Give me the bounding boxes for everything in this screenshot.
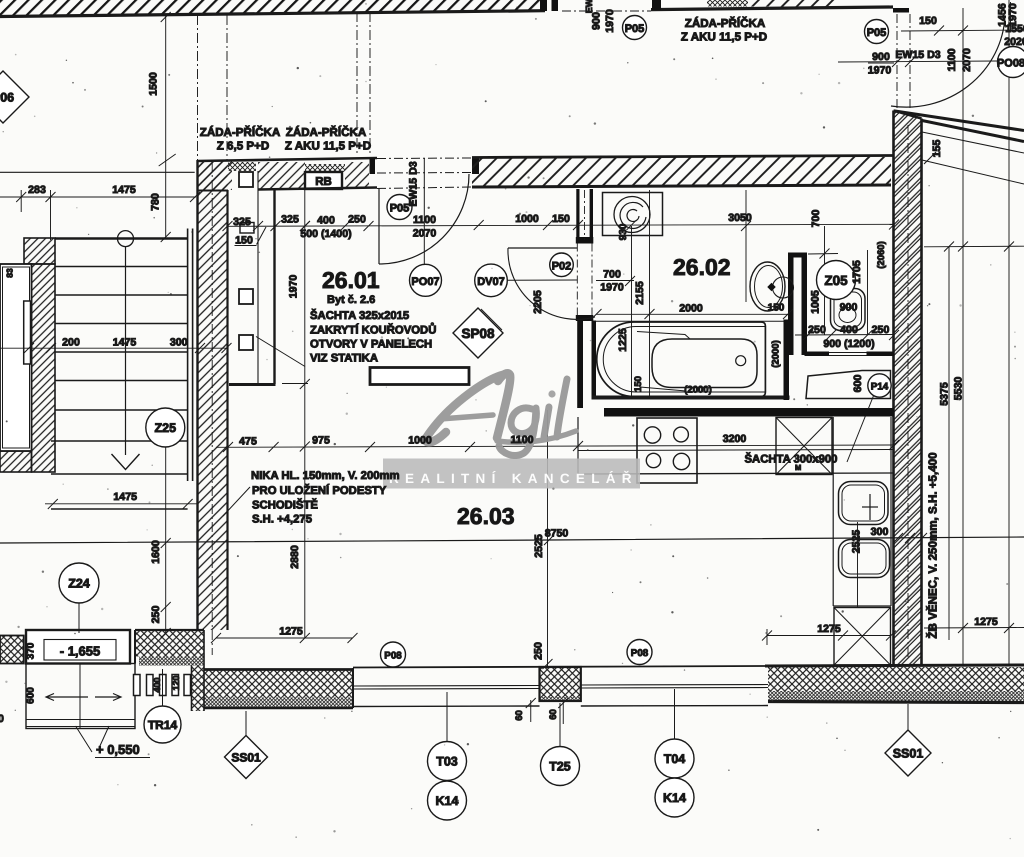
top right neighbour door arc <box>891 17 1005 108</box>
svg-text:T03: T03 <box>436 755 458 769</box>
svg-text:8750: 8750 <box>545 528 569 540</box>
window pillar <box>540 667 581 696</box>
door P05 opening dash-dots <box>377 157 472 160</box>
2155 vertical <box>649 190 651 397</box>
kitchen 1275b dim <box>767 635 891 637</box>
svg-text:200: 200 <box>62 337 80 349</box>
svg-text:EW15 D3: EW15 D3 <box>408 161 420 206</box>
sink bowl 1 <box>839 482 889 525</box>
elevator cabin <box>0 264 32 451</box>
60/60 dims below window <box>530 700 532 722</box>
black stub top right wall <box>893 8 909 13</box>
P02 circle <box>550 253 574 277</box>
Z24 circle <box>59 563 99 603</box>
door P02/DV07 opening dash-dots in partition <box>576 244 578 316</box>
svg-text:2070: 2070 <box>961 48 973 72</box>
svg-text:Byt č. 2.6: Byt č. 2.6 <box>327 294 375 306</box>
top band bottom edge <box>0 11 545 17</box>
washing machine <box>603 193 663 236</box>
svg-text:2205: 2205 <box>532 290 544 314</box>
toilet <box>831 289 866 331</box>
window band east <box>581 684 768 687</box>
entry arrows <box>47 696 88 698</box>
xx block left of -1,655 <box>0 636 24 664</box>
svg-text:OTVORY V PANELECH: OTVORY V PANELECH <box>310 339 432 351</box>
svg-text:250: 250 <box>533 642 545 660</box>
svg-text:60: 60 <box>548 709 559 720</box>
svg-text:150: 150 <box>919 15 937 27</box>
svg-text:150: 150 <box>633 376 644 392</box>
svg-text:250: 250 <box>150 606 162 624</box>
svg-text:700: 700 <box>810 210 822 228</box>
svg-text:155: 155 <box>931 140 943 158</box>
dim line y=446.5 room widths <box>216 445 894 447</box>
svg-text:1005: 1005 <box>810 290 822 314</box>
svg-text:P05: P05 <box>390 203 410 215</box>
svg-text:1475: 1475 <box>112 184 136 196</box>
svg-text:Z AKU 11,5 P+D: Z AKU 11,5 P+D <box>285 140 371 153</box>
svg-text:RB: RB <box>315 176 332 188</box>
top right door dims <box>838 61 997 62</box>
svg-text:ZAKRYTÍ KOUŘOVODŮ: ZAKRYTÍ KOUŘOVODŮ <box>310 323 436 337</box>
top-right slanted building lines <box>895 111 1024 131</box>
bathtub basin <box>652 339 757 388</box>
svg-text:1225: 1225 <box>617 328 629 352</box>
svg-text:5530: 5530 <box>953 377 965 401</box>
top right door dash-dots <box>896 14 898 108</box>
700/1970 bath door dim <box>596 280 634 282</box>
svg-text:475: 475 <box>239 436 257 448</box>
svg-text:PO07: PO07 <box>411 276 439 288</box>
svg-text:EW: EW <box>584 0 594 13</box>
P05 circle right <box>865 20 889 44</box>
svg-text:Z AKU 11,5 P+D: Z AKU 11,5 P+D <box>681 31 767 44</box>
svg-text:PRO ULOŽENÍ PODESTY: PRO ULOŽENÍ PODESTY <box>252 483 387 497</box>
svg-text:900: 900 <box>872 51 890 63</box>
stair handrail <box>187 229 189 482</box>
corridor line <box>0 171 195 173</box>
svg-text:150: 150 <box>768 303 785 314</box>
svg-text:REALITNÍ KANCELÁŘ: REALITNÍ KANCELÁŘ <box>389 470 638 486</box>
svg-text:PO08: PO08 <box>997 58 1024 70</box>
door P05 jamb <box>370 158 376 174</box>
SP08 diamond <box>453 308 503 358</box>
shaft square 3 <box>239 335 253 350</box>
svg-text:1100: 1100 <box>413 214 436 226</box>
svg-text:VIZ STATIKA: VIZ STATIKA <box>310 353 378 365</box>
sink cabinet X box <box>834 608 891 666</box>
stair steps <box>55 237 188 240</box>
partition lower bar <box>577 321 583 408</box>
P06 diamond <box>0 71 29 123</box>
svg-text:300: 300 <box>170 337 188 349</box>
svg-text:975: 975 <box>312 435 330 447</box>
svg-text:+ 0,550: + 0,550 <box>96 742 140 757</box>
svg-text:P05: P05 <box>867 27 887 39</box>
svg-text:1000: 1000 <box>515 213 539 225</box>
2880 vertical ticks on x=304.8 handled; 1275a dim <box>216 637 353 639</box>
svg-text:930: 930 <box>618 223 629 240</box>
right exterior wall hatched <box>894 111 922 667</box>
svg-text:1100: 1100 <box>511 434 534 446</box>
svg-text:26.03: 26.03 <box>457 503 515 529</box>
svg-text:1970: 1970 <box>288 275 300 299</box>
WC 700 extension vertical <box>745 190 747 302</box>
svg-text:SS01: SS01 <box>893 747 924 761</box>
svg-text:2155: 2155 <box>634 281 646 305</box>
P05 circle top <box>623 16 647 40</box>
door opening dash-dot top <box>562 10 651 12</box>
svg-text:283: 283 <box>28 184 46 196</box>
svg-text:T25: T25 <box>549 760 571 774</box>
svg-text:500 (1400): 500 (1400) <box>300 228 351 240</box>
entry vestibule box <box>26 664 135 729</box>
WC vanity <box>806 371 891 399</box>
svg-text:1970: 1970 <box>868 65 892 77</box>
stairs lower 1475 dim <box>45 503 197 505</box>
svg-text:1275: 1275 <box>279 626 303 638</box>
washer 930 vertical <box>631 226 633 397</box>
svg-text:325: 325 <box>281 214 299 226</box>
right side dims <box>962 8 964 666</box>
svg-text:1970: 1970 <box>604 9 616 33</box>
leader SP08 diag <box>481 309 502 330</box>
svg-text:1500: 1500 <box>148 72 160 96</box>
svg-text:1475: 1475 <box>113 491 137 503</box>
svg-text:1600: 1600 <box>150 540 162 564</box>
svg-text:ZÁDA-PŘÍČKA: ZÁDA-PŘÍČKA <box>200 125 281 139</box>
sink tap <box>869 494 871 520</box>
svg-text:780: 780 <box>150 193 162 211</box>
svg-text:SS01: SS01 <box>231 751 261 765</box>
svg-text:ŠACHTA 325x2015: ŠACHTA 325x2015 <box>310 308 409 322</box>
svg-text:K14: K14 <box>663 791 686 805</box>
2525b sink vertical <box>857 522 859 607</box>
bottom wall right xx band <box>768 667 1024 691</box>
walking line arrow <box>112 454 140 470</box>
sink bowl 2 <box>839 540 890 578</box>
wall bottom edges <box>198 190 229 192</box>
svg-text:400: 400 <box>840 324 858 336</box>
svg-text:120: 120 <box>171 675 181 690</box>
SS01 diamond left <box>225 736 268 779</box>
svg-text:Z 6,5 P+D: Z 6,5 P+D <box>217 140 270 153</box>
door jamb blocks top <box>540 0 547 11</box>
svg-text:DV07: DV07 <box>477 276 505 288</box>
RB shaft box <box>305 164 345 172</box>
door DV07 leaf <box>508 247 577 249</box>
shaft right thick line <box>273 189 275 384</box>
bath 2000 dim <box>596 313 788 315</box>
dim 283/1475 line <box>0 196 196 198</box>
svg-text:150: 150 <box>235 235 253 247</box>
elevator door bar <box>24 301 31 364</box>
Z05 circle <box>817 261 856 300</box>
svg-text:1970: 1970 <box>1007 3 1019 27</box>
entry +0,550 leaders <box>76 726 92 752</box>
svg-text:1475: 1475 <box>113 337 137 349</box>
svg-text:26.01: 26.01 <box>322 267 380 293</box>
apartment top wall left part <box>198 158 378 161</box>
tub basin step <box>637 332 690 340</box>
svg-text:3200: 3200 <box>723 433 747 445</box>
svg-text:T04: T04 <box>664 752 686 766</box>
SS01 diamond right <box>885 730 931 776</box>
svg-text:2000: 2000 <box>679 303 703 315</box>
bathtub mid <box>603 327 765 393</box>
svg-text:(2000): (2000) <box>684 385 711 396</box>
main top dim line y=225.5 <box>227 224 894 226</box>
svg-text:300: 300 <box>871 526 889 538</box>
partition shaft between 26.03 and bath: upper channel <box>576 189 579 237</box>
WC dims <box>824 226 826 335</box>
stove <box>637 418 697 483</box>
P08 circle right <box>627 640 652 665</box>
long 8750 line <box>0 537 1024 543</box>
svg-text:2525: 2525 <box>533 534 545 558</box>
hall 1500 dim vertical <box>165 14 167 237</box>
svg-text:1100: 1100 <box>946 48 958 71</box>
svg-text:900: 900 <box>840 302 858 314</box>
tub right wall bar <box>784 320 790 401</box>
svg-text:Z24: Z24 <box>68 577 90 591</box>
svg-text:P02: P02 <box>552 260 572 272</box>
325 niche marker box <box>240 223 254 234</box>
svg-text:1970: 1970 <box>600 282 624 294</box>
svg-text:250: 250 <box>808 324 826 336</box>
-1,655 box <box>26 630 130 664</box>
window band west <box>353 666 768 668</box>
svg-text:SCHODIŠTĚ: SCHODIŠTĚ <box>252 498 318 512</box>
svg-text:K14: K14 <box>436 794 459 808</box>
kitchen sink cabinet <box>832 417 834 606</box>
svg-text:150: 150 <box>552 213 570 225</box>
door P05 leaf <box>378 188 380 264</box>
svg-text:ZÁDA-PŘÍČKA: ZÁDA-PŘÍČKA <box>286 125 367 139</box>
dimension number texts <box>28 15 1024 638</box>
svg-text:- 1,655: - 1,655 <box>60 644 100 659</box>
svg-text:2070: 2070 <box>413 228 437 240</box>
door DV07 arc <box>508 248 595 319</box>
svg-text:1275: 1275 <box>974 616 998 628</box>
WC partition <box>788 253 794 356</box>
svg-text:2020: 2020 <box>1004 36 1024 48</box>
svg-text:M: M <box>795 463 801 472</box>
svg-text:P14: P14 <box>871 382 889 393</box>
svg-text:60: 60 <box>514 710 525 721</box>
watermark band <box>383 459 640 489</box>
svg-text:P08: P08 <box>384 651 402 662</box>
Z25 dim line 1600/250 <box>165 447 167 633</box>
PO07 circle <box>410 264 442 296</box>
svg-text:Z25: Z25 <box>155 421 177 435</box>
svg-text:ZÁDA-PŘÍČKA: ZÁDA-PŘÍČKA <box>685 16 766 30</box>
svg-text:26.02: 26.02 <box>673 254 731 280</box>
shaft bottom cap <box>229 383 276 386</box>
left wall edges <box>196 160 198 630</box>
door P05 arc <box>379 174 469 264</box>
250 pillar dim vertical <box>547 410 549 666</box>
bath top wall hatched <box>472 157 891 187</box>
svg-text:700: 700 <box>603 269 621 281</box>
hall dash-dot wall axes <box>197 15 199 160</box>
svg-text:0: 0 <box>0 713 4 725</box>
svg-text:370: 370 <box>26 642 37 659</box>
top wall right segment edge <box>651 7 893 10</box>
svg-text:(2000): (2000) <box>771 340 782 367</box>
svg-text:325: 325 <box>233 216 251 228</box>
P14 circle <box>868 374 891 397</box>
bathtub outer <box>597 322 766 397</box>
WC south wall pieces <box>805 352 830 357</box>
bathtub enclosure <box>592 321 597 400</box>
bottom exterior wall: entry block <box>135 630 204 657</box>
svg-text:250: 250 <box>872 324 890 336</box>
svg-text:2525: 2525 <box>851 530 863 554</box>
svg-text:1705: 1705 <box>851 260 863 284</box>
K14 circle left <box>428 781 467 820</box>
T04 circle <box>655 739 694 778</box>
svg-text:1000: 1000 <box>408 435 432 447</box>
P08 circle left <box>381 642 406 667</box>
svg-text:5375: 5375 <box>939 382 951 406</box>
T25 circle <box>541 747 580 786</box>
shaft square 2 <box>239 289 253 304</box>
dim 200/1475/300 line stairs <box>0 347 228 349</box>
svg-text:400: 400 <box>317 215 335 227</box>
bath top wall jamb <box>472 158 479 174</box>
P05 circle (26.01 door) <box>387 195 412 220</box>
TR14 circle <box>144 706 181 743</box>
svg-text:600: 600 <box>26 687 37 704</box>
svg-text:P06: P06 <box>0 91 14 105</box>
left wall axis dash-dot <box>211 162 213 655</box>
svg-text:900: 900 <box>591 12 603 30</box>
svg-text:1275: 1275 <box>817 623 841 635</box>
Z25 circle <box>146 408 185 447</box>
door track bars TR14 <box>134 675 141 696</box>
svg-text:2880: 2880 <box>289 545 301 569</box>
stair walking line + start circle <box>118 231 134 247</box>
sachta X box <box>776 418 832 475</box>
svg-text:SP08: SP08 <box>461 326 495 341</box>
svg-text:250: 250 <box>348 214 366 226</box>
PO08 circle <box>998 47 1024 78</box>
svg-text:900 (1200): 900 (1200) <box>823 338 874 350</box>
svg-text:(2060): (2060) <box>876 241 887 268</box>
svg-text:S.H. +4,275: S.H. +4,275 <box>252 514 312 526</box>
top exterior wall band hatched <box>0 0 543 17</box>
tub drain <box>736 356 746 366</box>
DV07 circle <box>475 264 508 297</box>
leader nika <box>223 487 250 516</box>
1970 shaft vertical dim <box>304 190 306 638</box>
svg-text:83: 83 <box>5 268 15 278</box>
bath south wall thick <box>604 408 894 417</box>
svg-text:Z05: Z05 <box>824 273 848 288</box>
svg-text:ŠACHTA 300x900: ŠACHTA 300x900 <box>745 452 838 466</box>
watermark Agil script <box>426 373 576 455</box>
svg-text:600: 600 <box>852 375 864 393</box>
right wall axis dash-dot <box>907 125 909 660</box>
leader P14 <box>847 395 874 463</box>
svg-text:ŽB VĚNEC, V. 250mm, S.H. +5,40: ŽB VĚNEC, V. 250mm, S.H. +5,400 <box>926 452 940 638</box>
svg-text:EW15 D3: EW15 D3 <box>895 49 940 61</box>
elevator shaft walls <box>24 238 55 264</box>
svg-text:P08: P08 <box>631 648 649 659</box>
svg-text:3050: 3050 <box>728 212 752 224</box>
svg-text:P05: P05 <box>625 23 645 35</box>
washbasin <box>750 262 785 311</box>
shaft square 1 <box>239 172 253 187</box>
K14 circle right <box>655 778 694 817</box>
svg-text:NIKA HL. 150mm, V. 200mm: NIKA HL. 150mm, V. 200mm <box>251 470 400 482</box>
svg-text:400: 400 <box>152 677 162 692</box>
bottom wall left xx band <box>204 670 353 698</box>
svg-text:TR14: TR14 <box>148 718 178 732</box>
leader sachta diag <box>256 337 305 367</box>
top wall right hatch strips <box>707 0 748 7</box>
T03 circle <box>428 742 467 781</box>
counter lines <box>578 450 894 451</box>
left apartment wall hatched <box>198 160 228 630</box>
